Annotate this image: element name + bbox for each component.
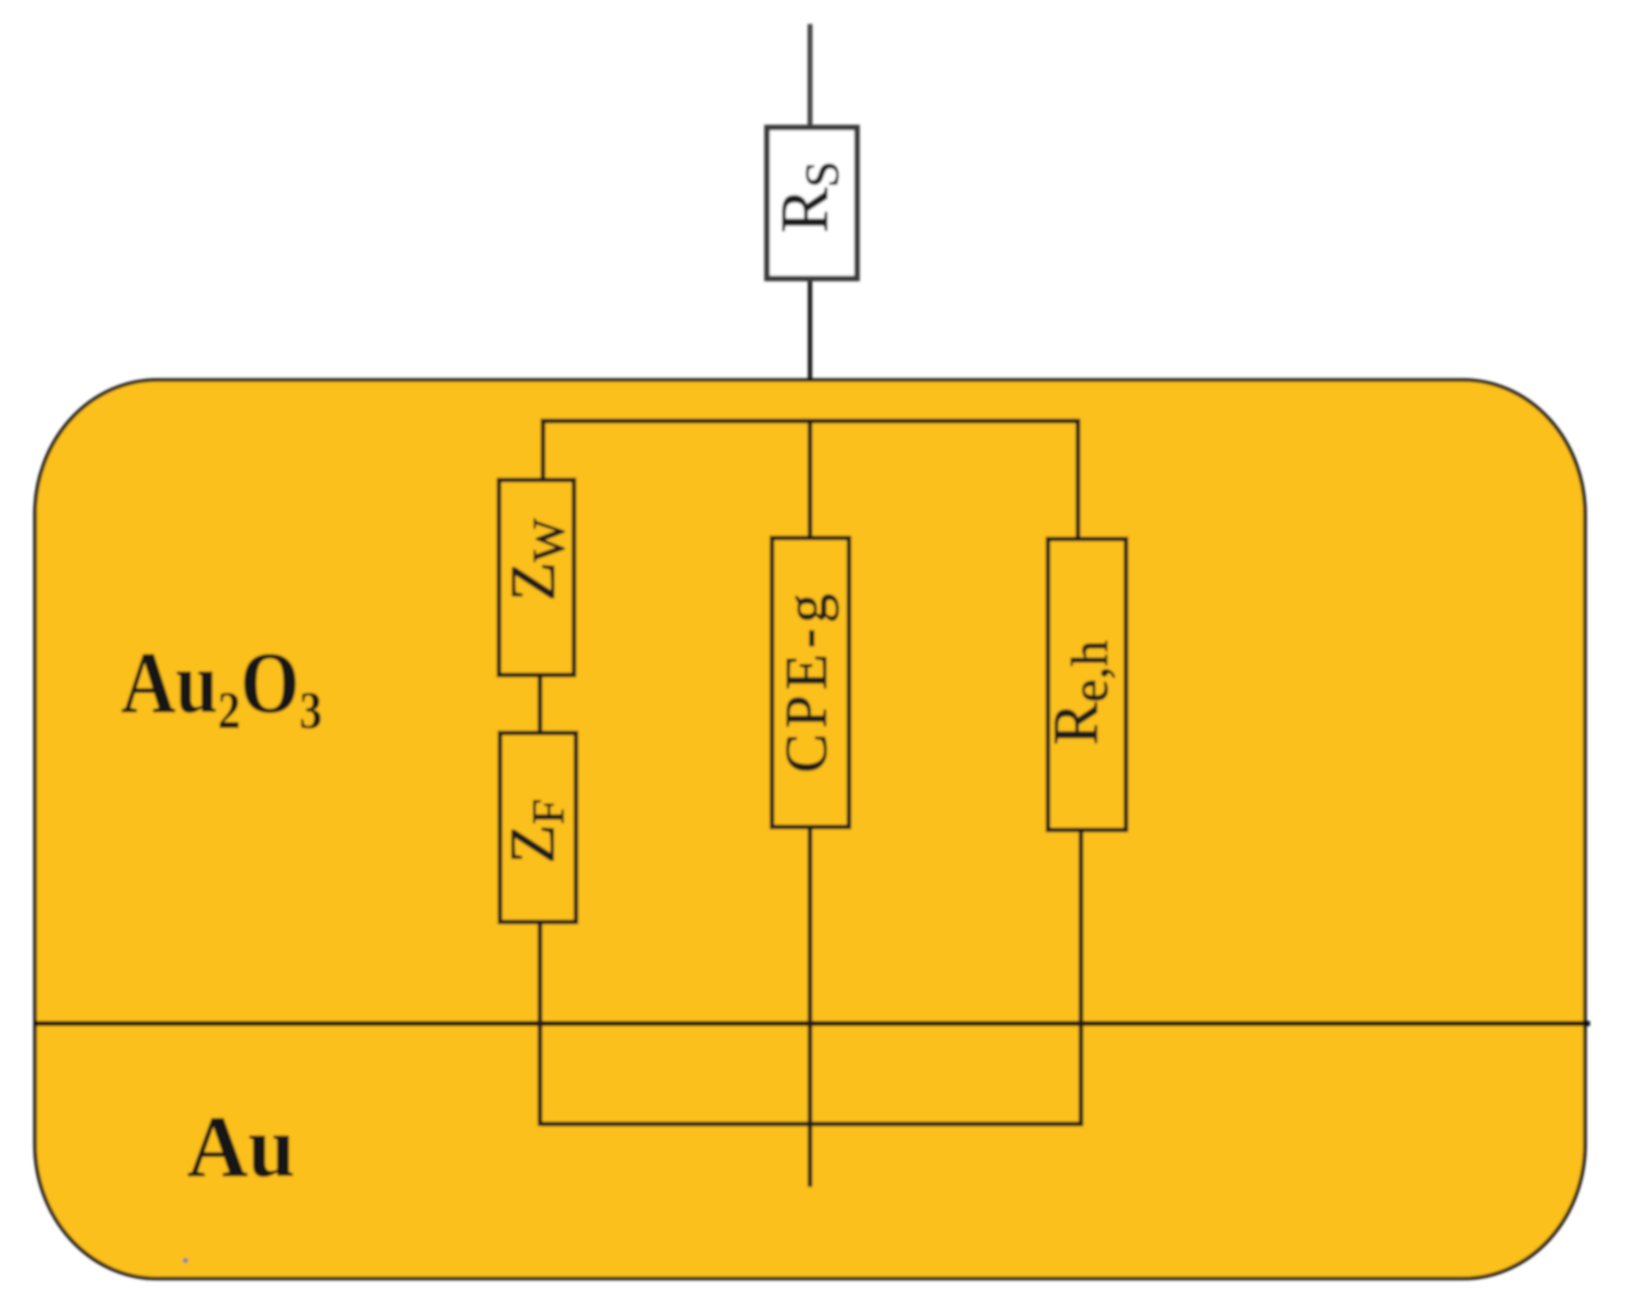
CPE element CPE-g bbox=[772, 538, 849, 827]
svg-text:Au: Au bbox=[187, 1097, 295, 1195]
wire: center stub into Au bbox=[808, 824, 813, 1187]
speck artifact bbox=[183, 1258, 188, 1263]
region Au2O3 / Au film body bbox=[35, 380, 1585, 1279]
wire: top parallel bus bbox=[543, 421, 1078, 539]
wire: Reh to bottom bus bbox=[1079, 826, 1084, 1126]
resistor RS bbox=[767, 128, 857, 279]
wire: ZF to bottom bus bbox=[538, 918, 543, 1126]
wire: center branch through film bbox=[808, 420, 813, 545]
node label Au bbox=[187, 1097, 295, 1195]
node label Au2O3 bbox=[121, 634, 322, 740]
wire: bottom parallel bus bbox=[540, 1122, 1083, 1127]
impedance ZF bbox=[500, 733, 576, 922]
wire: RS to gold-oxide film bbox=[808, 278, 813, 420]
wire: ZW to ZF link bbox=[538, 670, 543, 738]
resistor Reh bbox=[1048, 539, 1126, 830]
wire: top input lead bbox=[808, 24, 813, 130]
svg-text:CPE-g: CPE-g bbox=[773, 588, 839, 773]
node: Au2O3 / Au interface divider bbox=[35, 1021, 1590, 1026]
impedance ZW bbox=[499, 480, 574, 675]
